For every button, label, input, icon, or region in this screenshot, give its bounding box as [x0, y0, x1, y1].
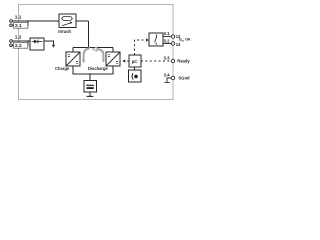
label box 2.2: [14, 42, 28, 48]
capacitor C1 plates: [86, 84, 94, 85]
nfc icon: [134, 75, 138, 79]
wire input drop: [88, 21, 90, 48]
wire converter top bus: [73, 47, 113, 49]
nfc box: [129, 70, 142, 82]
enclosure outline: [19, 5, 174, 100]
dcdc converter charge U1: [66, 52, 80, 66]
svg-text:2.1: 2.1: [15, 23, 22, 29]
terminal 13: [171, 35, 174, 38]
arrow charge flow: [84, 48, 90, 60]
terminal ready: [171, 59, 174, 62]
svg-text:2.2: 2.2: [15, 43, 22, 49]
wire diode out / output arrow: [44, 41, 54, 45]
wire inrush out: [76, 20, 89, 22]
svg-text:Inrush: Inrush: [58, 29, 71, 34]
terminal 1.2: [10, 40, 13, 43]
relay contact symbol: [155, 35, 157, 45]
dashed uc to discharge: [126, 60, 130, 62]
wire 2.1 link: [13, 21, 29, 25]
node 2.2 junction: [27, 40, 29, 42]
svg-text:SGnd: SGnd: [178, 76, 190, 81]
svg-text:3.2: 3.2: [164, 38, 171, 43]
terminal 2.1: [10, 24, 13, 27]
wire charge top stub: [72, 48, 74, 53]
relay box: [149, 33, 163, 46]
terminal 2.2: [10, 44, 13, 47]
node 2.1 junction: [27, 20, 29, 22]
wire cap drop: [89, 74, 91, 81]
wire discharge top stub: [112, 48, 114, 53]
wire uc to nfc: [134, 67, 136, 70]
dcdc converter discharge U2: [106, 52, 120, 66]
svg-text:Uin OK: Uin OK: [179, 38, 191, 43]
inrush symbol body: [62, 17, 73, 21]
diode D1: [32, 41, 43, 43]
terminal 1.1: [10, 20, 13, 23]
terminal 14: [171, 42, 174, 45]
node input bus junction: [88, 47, 90, 49]
wire relay to 14: [163, 43, 171, 45]
node cap junction: [89, 73, 91, 75]
ground symbol sgnd: [164, 78, 171, 82]
svg-text:1.2: 1.2: [15, 35, 22, 41]
dashed uc to relay: [135, 40, 146, 55]
svg-text:1.1: 1.1: [15, 15, 22, 21]
wire 2.2 link: [13, 41, 29, 45]
svg-text:Discharge: Discharge: [88, 66, 109, 71]
ground bar cap: [87, 95, 94, 97]
svg-text:3.1: 3.1: [164, 31, 171, 36]
svg-text:µC: µC: [132, 59, 139, 64]
wire output row: [13, 40, 31, 42]
wire charge bottom: [73, 66, 113, 74]
label box 2.1: [14, 22, 28, 28]
inrush symbol arrow: [62, 23, 71, 26]
arrow discharge flow: [97, 49, 103, 62]
svg-text:Ready: Ready: [177, 59, 190, 64]
wire relay to 13: [163, 36, 171, 38]
diode box: [30, 38, 44, 50]
wire cap bottom: [89, 92, 91, 96]
svg-text:14: 14: [176, 42, 181, 47]
svg-text:3.4: 3.4: [164, 73, 171, 78]
inrush limiter box: [59, 14, 76, 28]
dashed uc to ready: [141, 60, 171, 62]
svg-text:Charge: Charge: [55, 66, 70, 71]
capacitor box: [84, 81, 97, 93]
svg-text:3.3: 3.3: [164, 56, 171, 61]
microcontroller box: [129, 55, 141, 67]
terminal sgnd: [171, 76, 174, 79]
wire input top: [13, 20, 89, 22]
